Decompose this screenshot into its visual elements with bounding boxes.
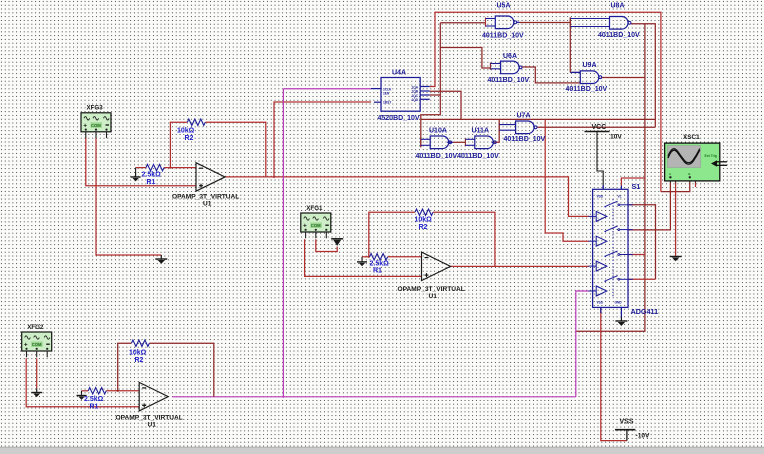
svg-text:OPAMP_3T_VIRTUAL: OPAMP_3T_VIRTUAL: [116, 415, 183, 422]
svg-text:R2: R2: [135, 357, 144, 364]
svg-text:4011BD_10V: 4011BD_10V: [488, 77, 530, 84]
svg-text:VDD: VDD: [597, 195, 604, 199]
svg-text:+: +: [83, 122, 87, 129]
svg-text:XFG2: XFG2: [27, 324, 44, 331]
svg-text:VCC: VCC: [592, 124, 607, 131]
svg-text:U10A: U10A: [429, 128, 447, 135]
svg-text:U5A: U5A: [497, 2, 511, 9]
svg-text:VL: VL: [618, 195, 622, 199]
svg-text:U8A: U8A: [611, 2, 625, 9]
svg-text:+: +: [303, 223, 307, 230]
svg-text:4011BD_10V: 4011BD_10V: [504, 136, 546, 143]
svg-text:U1: U1: [429, 293, 438, 300]
svg-text:10kΩ: 10kΩ: [129, 350, 147, 357]
svg-text:OPAMP_3T_VIRTUAL: OPAMP_3T_VIRTUAL: [172, 194, 239, 201]
svg-text:XSC1: XSC1: [683, 134, 700, 141]
svg-text:S1: S1: [632, 182, 641, 191]
svg-text:10V: 10V: [610, 134, 622, 141]
svg-text:VSS: VSS: [620, 419, 634, 426]
svg-text:10kΩ: 10kΩ: [415, 217, 433, 224]
svg-text:VSS: VSS: [597, 301, 603, 305]
svg-text:2.5kΩ: 2.5kΩ: [370, 261, 390, 268]
svg-text:1EN: 1EN: [383, 91, 390, 95]
svg-text:1RST: 1RST: [383, 101, 391, 105]
svg-text:U6A: U6A: [503, 53, 517, 60]
svg-text:1QD: 1QD: [411, 98, 418, 102]
svg-text:U9A: U9A: [583, 62, 597, 69]
svg-text:A: A: [669, 172, 671, 176]
svg-text:-10V: -10V: [636, 433, 651, 440]
svg-text:XFG1: XFG1: [306, 205, 323, 212]
svg-text:COM: COM: [32, 342, 42, 347]
svg-text:R1: R1: [90, 404, 99, 411]
svg-text:U1: U1: [203, 201, 212, 208]
svg-text:4011BD_10V: 4011BD_10V: [598, 32, 640, 39]
svg-text:4011BD_10V4011BD_10V: 4011BD_10V4011BD_10V: [416, 153, 500, 160]
svg-text:2.5kΩ: 2.5kΩ: [84, 396, 104, 403]
svg-text:Ext Trig: Ext Trig: [705, 154, 717, 158]
svg-text:R2: R2: [185, 135, 194, 142]
svg-text:B: B: [688, 172, 690, 176]
svg-text:U7A: U7A: [517, 113, 531, 120]
svg-text:2.5kΩ: 2.5kΩ: [142, 172, 162, 179]
svg-text:OPAMP_3T_VIRTUAL: OPAMP_3T_VIRTUAL: [398, 286, 465, 293]
svg-text:+: +: [24, 342, 28, 349]
svg-text:U4A: U4A: [392, 69, 406, 76]
svg-text:4520BD_10V: 4520BD_10V: [378, 115, 420, 122]
svg-text:U1: U1: [148, 422, 157, 429]
svg-text:R1: R1: [147, 179, 156, 186]
svg-text:U11A: U11A: [472, 128, 490, 135]
svg-text:XFG3: XFG3: [87, 105, 104, 112]
svg-text:ADG411: ADG411: [631, 307, 659, 316]
svg-text:10kΩ: 10kΩ: [177, 128, 195, 135]
svg-text:4011BD_10V: 4011BD_10V: [482, 33, 524, 40]
svg-text:COM: COM: [311, 223, 321, 228]
svg-text:R1: R1: [373, 268, 382, 275]
svg-text:R2: R2: [419, 224, 428, 231]
svg-text:GND: GND: [615, 301, 623, 305]
svg-text:4011BD_10V: 4011BD_10V: [566, 86, 608, 93]
svg-text:COM: COM: [91, 123, 101, 128]
